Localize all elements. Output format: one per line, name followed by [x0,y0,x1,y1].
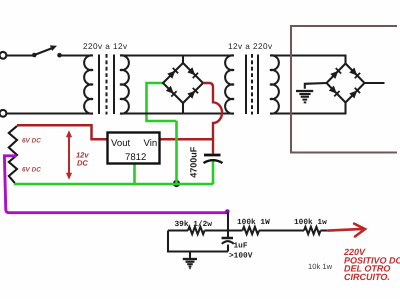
wire (green) capacitor negative to rail [212,161,215,184]
capacitor C2 1uF [222,232,234,252]
wire (green) BR1 negative, upper segment (under black wires) [147,83,177,121]
wire (red) BR1 positive down with hop [203,83,222,154]
svg-text:39k 1/2w: 39k 1/2w [175,220,213,229]
svg-text:10k 1w: 10k 1w [308,262,333,271]
diode D1 (BR1 top-left) [167,68,178,79]
svg-text:Vin: Vin [144,138,158,149]
svg-text:100k 1W: 100k 1W [237,218,270,227]
svg-text:>100V: >100V [229,252,253,261]
svg-text:DC: DC [77,159,88,168]
bridge rectifier BR1 [163,56,203,114]
transformer T1 primary winding [84,55,93,113]
capacitor C1 4700uF [204,155,223,163]
diode D7 (BR2 bottom-left) [329,85,340,96]
transformer T1 secondary winding [120,55,129,113]
resistor R3 100k 1w [304,227,330,234]
enclosure box (other circuit, dark red) [291,26,397,153]
transformer T1 core [99,54,114,115]
wire (magenta) center tap to divider [4,156,227,213]
wire switch to T1 primary [61,54,94,56]
resistor R2 100k 1W [243,227,305,234]
wire T1 secondary bottom to T2 primary [120,112,234,114]
label 220V POSITIVO DC DEL OTRO CIRCUITO. [343,247,400,282]
switch S1 [32,45,62,57]
wire (green) regulator tab to rail [133,164,136,185]
wire BR2 positive output [365,82,385,84]
svg-text:12v a 220v: 12v a 220v [228,42,273,51]
svg-text:1uF: 1uF [234,242,248,251]
diode D3 (BR1 bottom-left) [166,86,177,97]
ground (BR2 negative) [296,83,327,102]
diode D2 (BR1 top-right) [187,67,198,78]
divider left branch [168,231,228,252]
svg-text:220v a 12v: 220v a 12v [83,42,128,51]
output arrow 220V [328,224,365,237]
regulator U1 7812 [108,133,160,164]
wire (green) BR1 negative to rail (lower segment) [175,121,178,184]
svg-text:100k 1w: 100k 1w [294,218,327,227]
node magenta end [225,209,230,214]
wire (red) 12V rail from secondary tap [17,125,108,139]
wire (red) to regulator Vin [160,138,214,141]
bridge rectifier BR2 [327,64,365,103]
wire (green) ground rail [14,183,213,186]
wire T1 secondary top to T2 primary [120,54,234,56]
measurement arrow 12v DC [66,130,72,180]
terminal J1 (AC input top) [0,52,6,59]
wire J2 to T1 primary (bottom) [7,112,93,114]
svg-text:6V DC: 6V DC [22,167,41,174]
transformer T2 core [246,54,258,115]
wire J1 to switch [7,54,33,56]
svg-text:CIRCUITO.: CIRCUITO. [344,272,390,282]
terminal J2 (AC input bottom) [0,110,6,117]
wire magenta node down to divider [227,213,229,231]
resistor R1 39k 1/2w [168,227,243,234]
wire T2 secondary top to BR2 [270,56,346,64]
junction node on green rail [173,180,180,187]
transformer T2 secondary winding [270,55,279,113]
diode D8 (BR2 bottom-right) [349,88,360,99]
svg-text:4700uF: 4700uF [189,146,199,178]
svg-text:Vout: Vout [111,138,131,149]
diode D5 (BR2 top-left) [330,68,341,79]
diode D6 (BR2 top-right) [349,67,360,78]
diode D4 (BR1 bottom-right) [187,88,198,99]
svg-text:6V DC: 6V DC [22,138,41,145]
wire T2 secondary bottom to BR2 [270,103,346,114]
svg-text:7812: 7812 [125,152,146,163]
secondary DC winding (zigzag, left) [9,126,17,183]
transformer T2 primary winding [225,55,234,113]
ground (divider) [183,252,197,269]
